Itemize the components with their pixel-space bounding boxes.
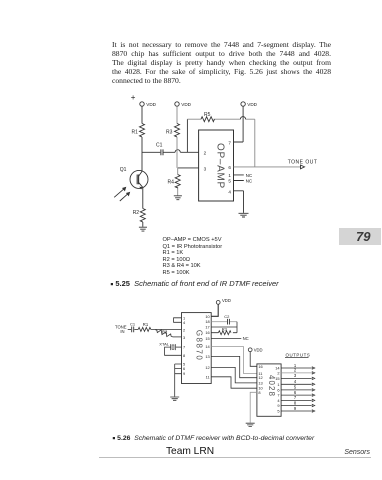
svg-text:G8870: G8870 (195, 330, 204, 362)
svg-text:8: 8 (294, 400, 297, 405)
svg-text:9: 9 (277, 403, 279, 408)
svg-text:R1: R1 (143, 322, 149, 327)
svg-text:4: 4 (294, 379, 297, 384)
svg-text:3: 3 (204, 167, 207, 172)
svg-text:7: 7 (277, 393, 279, 398)
svg-text:4: 4 (183, 320, 186, 325)
svg-text:8: 8 (258, 390, 260, 395)
svg-text:16: 16 (258, 364, 262, 369)
svg-text:C2: C2 (224, 314, 230, 319)
svg-text:Q1: Q1 (120, 167, 127, 173)
svg-text:OP–AMP: OP–AMP (215, 143, 226, 189)
svg-text:10: 10 (205, 314, 210, 319)
svg-text:16: 16 (205, 330, 209, 335)
svg-text:1: 1 (228, 173, 231, 178)
svg-text:+: + (131, 93, 136, 102)
svg-text:R2: R2 (133, 210, 140, 216)
svg-text:1: 1 (277, 382, 279, 387)
svg-text:14: 14 (205, 344, 210, 349)
svg-text:12: 12 (205, 365, 209, 370)
svg-text:18: 18 (205, 319, 209, 324)
svg-text:R3: R3 (222, 326, 228, 331)
svg-text:2: 2 (204, 151, 207, 156)
svg-text:R5: R5 (204, 112, 211, 118)
svg-text:7: 7 (228, 140, 231, 145)
svg-text:2: 2 (294, 368, 297, 373)
svg-text:9: 9 (183, 371, 185, 376)
svg-text:IN: IN (120, 329, 124, 334)
svg-text:2: 2 (277, 370, 279, 375)
svg-text:VDD: VDD (254, 347, 263, 352)
svg-text:VDD: VDD (222, 298, 231, 303)
svg-text:R3: R3 (166, 129, 173, 135)
svg-text:6: 6 (183, 366, 185, 371)
svg-text:R1: R1 (132, 129, 139, 135)
svg-text:11: 11 (206, 374, 210, 379)
svg-text:5: 5 (277, 409, 279, 414)
svg-text:VDD: VDD (146, 102, 156, 107)
svg-text:5: 5 (228, 179, 231, 184)
svg-text:NC: NC (246, 173, 253, 178)
svg-text:13: 13 (205, 354, 209, 359)
svg-text:NC: NC (243, 336, 249, 341)
svg-text:3: 3 (183, 335, 185, 340)
svg-text:VDD: VDD (247, 102, 257, 107)
svg-text:3: 3 (294, 373, 297, 378)
svg-text:15: 15 (205, 336, 209, 341)
svg-text:4028: 4028 (267, 375, 276, 397)
svg-text:6: 6 (294, 390, 297, 395)
svg-text:C1: C1 (130, 321, 136, 326)
svg-text:C1: C1 (156, 143, 163, 149)
svg-text:8: 8 (183, 353, 185, 358)
svg-text:13: 13 (258, 380, 262, 385)
svg-text:XTAL: XTAL (159, 341, 169, 346)
svg-text:R2: R2 (162, 329, 168, 334)
svg-text:7: 7 (183, 345, 185, 350)
svg-text:VDD: VDD (181, 102, 191, 107)
svg-text:17: 17 (205, 325, 209, 330)
svg-text:6: 6 (228, 165, 231, 170)
svg-text:TONE OUT: TONE OUT (288, 159, 318, 165)
svg-text:9: 9 (294, 406, 297, 411)
svg-text:2: 2 (183, 328, 185, 333)
svg-text:R4: R4 (168, 179, 175, 185)
svg-text:OUTPUTS: OUTPUTS (286, 353, 311, 358)
svg-text:NC: NC (246, 179, 253, 184)
svg-text:4: 4 (228, 190, 231, 195)
